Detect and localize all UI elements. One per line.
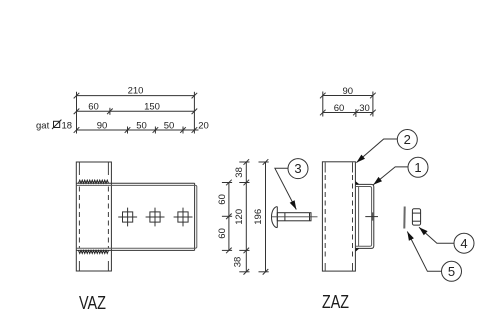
hole 3 [174,208,193,227]
dimension 60 / 150 [74,108,198,115]
channel bracket VAZ (front view) [76,183,194,250]
svg-text:90: 90 [343,86,354,97]
column ZAZ inner lines [325,162,352,270]
balloon 4 [419,227,474,253]
balloon 5 [407,232,461,282]
svg-text:2: 2 [404,132,411,147]
column VAZ inner flange lines (solid ends) [79,163,108,271]
svg-text:3: 3 [294,161,301,176]
bolt centerline [272,216,318,218]
channel bracket ZAZ (inner contour) [356,187,372,247]
bolt M16 (item 3, side view) [272,207,312,228]
weld ZAZ bottom (fillet triangle) [356,248,360,251]
channel bracket ZAZ flange tip line [358,187,360,247]
weld bottom (zigzag) [79,250,109,253]
nut (item 4, side view) [412,209,420,225]
column VAZ hidden lines (dashed) [79,187,108,249]
svg-text:38: 38 [233,257,244,268]
svg-text:38: 38 [234,167,245,178]
weld ZAZ top (fillet triangle) [356,181,360,184]
svg-text:gat: gat [36,120,50,131]
svg-text:1: 1 [414,160,421,175]
svg-text:50: 50 [164,120,175,131]
hole 1 [118,208,137,227]
svg-text:120: 120 [234,209,245,225]
svg-text:4: 4 [460,236,467,251]
dimension 210 [74,92,198,134]
bolt center mark ZAZ [365,212,378,220]
svg-text:60: 60 [88,102,99,113]
dimension 60/60 (vertical, hole spacing) [222,180,232,254]
svg-text:20: 20 [198,120,209,131]
dimension 60 / 30 [320,109,376,117]
svg-text:150: 150 [144,102,160,113]
svg-text:ZAZ: ZAZ [322,292,349,312]
svg-text:5: 5 [448,264,455,279]
svg-text:60: 60 [217,194,228,205]
hole 2 [146,208,165,227]
svg-text:210: 210 [128,85,144,96]
balloon 1 [373,157,428,185]
dimension 90 [320,92,376,117]
column VAZ (front view) [76,162,111,271]
svg-text:30: 30 [359,103,370,114]
balloon 3 [275,159,308,210]
dimension 90 / 50 / 50 / 20 [74,127,199,134]
svg-text:18: 18 [62,120,73,131]
balloon 2 [356,130,417,163]
dimension 38/120/38 (vertical) [239,159,249,274]
svg-text:60: 60 [334,103,345,114]
svg-text:50: 50 [136,120,147,131]
dimension 196 (vertical overall) [259,159,269,274]
weld top (zigzag) [79,180,109,183]
column ZAZ (side view) [322,162,355,271]
filler plate (item 5) [403,207,405,229]
svg-text:60: 60 [217,228,228,239]
svg-text:90: 90 [97,120,108,131]
svg-text:196: 196 [253,209,264,225]
channel bracket ZAZ (side view, outer contour) [356,184,374,248]
svg-text:VAZ: VAZ [79,293,106,313]
